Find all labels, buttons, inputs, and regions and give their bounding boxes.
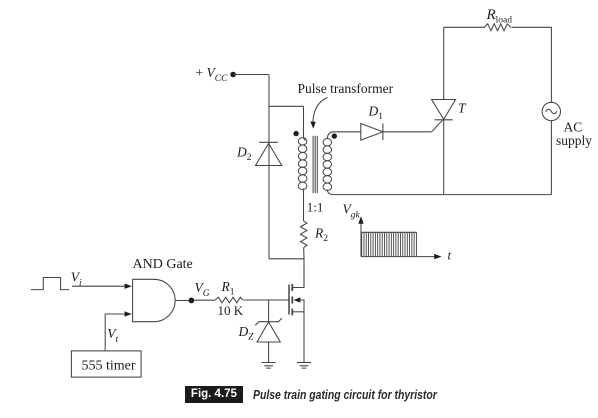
wire R1 to gate — [244, 299, 290, 301]
wire AC source bottom — [550, 121, 552, 195]
node VG dot — [189, 298, 195, 304]
svg-text:Vi: Vi — [71, 270, 82, 289]
wire VG to R1 — [194, 299, 215, 301]
wire secondary bottom lead — [327, 190, 334, 195]
svg-text:D1: D1 — [368, 104, 384, 123]
wire VCC horizontal — [233, 74, 269, 76]
svg-text:R2: R2 — [314, 226, 328, 245]
svg-text:Rload: Rload — [486, 7, 513, 26]
svg-text:1:1: 1:1 — [307, 200, 324, 215]
zener DZ triangle — [257, 322, 280, 342]
resistor R2 — [301, 221, 307, 247]
waveform pulse train vertical lines — [362, 232, 417, 256]
resistor Rload — [484, 24, 511, 31]
waveform pulse train top line — [362, 231, 417, 233]
svg-text:DZ: DZ — [238, 324, 255, 343]
svg-text:Pulse transformer: Pulse transformer — [298, 81, 394, 96]
wire AND output — [175, 300, 188, 302]
wire input Vi arrow — [72, 285, 126, 287]
transformer T1 secondary dot — [332, 133, 337, 138]
wire thyristor cathode — [443, 120, 445, 195]
transistor Q1 gate bar — [288, 285, 290, 315]
AC source circle — [542, 102, 560, 120]
diode D1 cathode bar — [382, 124, 384, 141]
diode D1 triangle — [361, 124, 383, 141]
transformer T1 primary winding — [298, 138, 307, 190]
transformer T1 secondary winding — [323, 138, 332, 190]
svg-text:+ VCC: + VCC — [196, 65, 229, 84]
wire D1 to thyristor gate — [383, 131, 432, 133]
svg-text:555 timer: 555 timer — [82, 359, 136, 374]
wire VCC vertical down left rail — [268, 75, 270, 259]
diode D2 triangle — [256, 143, 282, 165]
wire bottom of left rail to R2 node — [269, 258, 304, 260]
gate U1 AND body — [133, 279, 176, 321]
svg-text:Vt: Vt — [107, 326, 118, 345]
transistor Q1 channel segments — [291, 284, 293, 315]
transformer T1 core — [313, 136, 317, 193]
svg-text:Vgk: Vgk — [343, 202, 361, 221]
thyristor T cathode bar — [435, 119, 453, 121]
wire DZ branch — [268, 300, 270, 322]
wire Rload to right rail — [512, 27, 552, 102]
resistor R1 — [215, 297, 243, 303]
svg-text:D2: D2 — [236, 145, 252, 164]
wire primary top lead — [304, 106, 306, 140]
waveform horizontal axis — [361, 256, 436, 258]
waveform vertical axis — [360, 223, 362, 257]
svg-text:AND Gate: AND Gate — [133, 257, 193, 272]
transistor Q1 drain lead — [292, 259, 304, 288]
ground source — [297, 363, 311, 369]
wire bottom rail — [334, 194, 551, 196]
caption Fig 4.75 box — [185, 386, 244, 404]
wire input Vt vertical — [105, 314, 125, 351]
wire top to Rload — [444, 26, 485, 28]
box 555 timer — [71, 351, 141, 377]
transistor Q1 source lead — [292, 311, 304, 313]
waveform Vi pulse symbol — [31, 278, 69, 290]
wire DZ to ground — [268, 342, 270, 363]
wire primary bottom lead — [303, 189, 305, 222]
node VCC terminal dot — [230, 72, 236, 78]
svg-text:VG: VG — [195, 280, 210, 299]
AC source tilde — [546, 109, 557, 113]
wire thyristor anode — [443, 27, 445, 99]
zener DZ cathode bar — [255, 318, 282, 325]
wire thyristor gate diagonal — [432, 120, 443, 132]
ground DZ — [262, 363, 276, 369]
wire secondary top lead — [327, 132, 361, 139]
transistor Q1 body arrow — [294, 297, 301, 302]
diode D2 cathode bar — [259, 141, 278, 143]
svg-text:R1: R1 — [221, 279, 235, 298]
thyristor T triangle — [432, 100, 456, 120]
svg-text:10 K: 10 K — [218, 303, 244, 318]
wire R2 to drain — [303, 247, 305, 287]
wire branch to primary top — [269, 105, 304, 107]
svg-text:supply: supply — [556, 133, 592, 148]
caption title text — [253, 388, 437, 402]
svg-text:T: T — [458, 101, 467, 116]
transformer T1 primary dot — [293, 131, 298, 136]
wire source to ground — [303, 312, 305, 363]
arrow pulse transformer pointer — [313, 98, 328, 123]
svg-text:t: t — [448, 248, 452, 263]
